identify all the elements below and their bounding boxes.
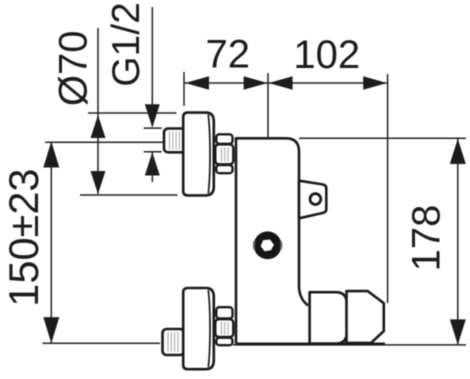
arrow 102 right <box>363 76 387 89</box>
arrow 72 left <box>185 76 209 89</box>
dimension line 150+-23 <box>50 142 52 343</box>
arrow D70 down <box>91 171 106 194</box>
svg-text:G1/2: G1/2 <box>105 2 148 87</box>
bottom wall flange <box>183 288 214 369</box>
extension line D70 bottom <box>80 194 178 196</box>
screw hex socket <box>261 240 274 252</box>
dimension line 178 <box>457 139 459 345</box>
svg-text:150±23: 150±23 <box>0 169 47 307</box>
bottom stub threads <box>168 332 178 352</box>
top union nut band 2 <box>215 144 233 164</box>
bottom nut threads <box>222 322 228 335</box>
tick G1/2 bottom <box>144 151 162 153</box>
screw shading right <box>280 241 283 250</box>
extension line D70 top <box>88 112 177 114</box>
wall bracket tab <box>299 181 326 219</box>
arrow G1/2 up <box>145 152 160 175</box>
top wall flange <box>183 113 214 196</box>
arrow 178 down <box>450 319 466 344</box>
bottom union nut band 2 <box>215 319 233 337</box>
outlet end cap <box>347 291 384 343</box>
svg-text:178: 178 <box>405 205 449 272</box>
bottom flange face line <box>208 290 210 367</box>
top flange face line <box>208 115 210 194</box>
extension line 178 top <box>299 137 466 139</box>
arrow 72 right <box>244 76 268 89</box>
arrow 102 left <box>269 76 293 89</box>
dimension line D70 <box>97 28 99 194</box>
extension line bottom <box>233 344 466 346</box>
arrow 150 up <box>43 141 59 167</box>
top nut threads <box>222 148 228 162</box>
faucet body bottom edge <box>236 342 385 345</box>
top union nut band 3 <box>216 165 232 173</box>
faucet body outline <box>236 138 308 343</box>
top union nut band 1 <box>216 134 232 144</box>
dimension line 72/102 <box>184 82 388 84</box>
tick G1/2 top <box>144 127 162 129</box>
extension line right (102 end) <box>387 74 389 303</box>
extension line middle (72/102 boundary) <box>267 73 269 231</box>
top stub threads <box>170 132 180 150</box>
arrow D70 up <box>91 115 106 138</box>
svg-text:Ø70: Ø70 <box>52 30 96 106</box>
outlet collar ring <box>310 292 349 343</box>
top supply stub <box>164 129 186 153</box>
extension line left (72 start) <box>183 72 185 106</box>
bracket hole <box>310 194 321 205</box>
screw cap <box>254 231 282 259</box>
svg-text:102: 102 <box>293 33 360 77</box>
centerline top inlet <box>45 141 165 143</box>
dimension line G1/2 lower <box>151 152 153 182</box>
dimension line G1/2 upper <box>151 7 153 126</box>
arrow 178 up <box>450 139 466 164</box>
screw shading left <box>253 241 256 250</box>
svg-text:72: 72 <box>206 33 251 77</box>
bottom union nut band 3 <box>216 338 232 346</box>
bottom supply stub <box>163 329 185 355</box>
arrow G1/2 down <box>145 104 160 127</box>
centerline bottom inlet <box>43 342 161 344</box>
arrow 150 down <box>43 317 59 343</box>
bottom union nut band 1 <box>216 307 232 318</box>
